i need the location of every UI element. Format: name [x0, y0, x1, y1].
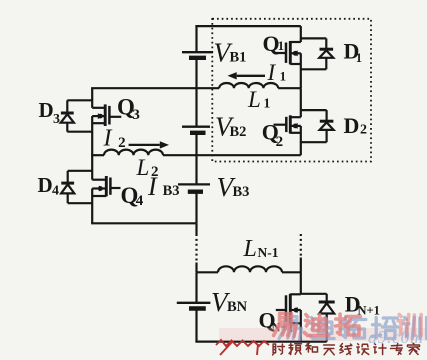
- wire (Q3 source vertical to SW2): [91, 116, 93, 155]
- diode D1: [319, 38, 333, 69]
- watermark (decorative): [219, 328, 427, 341]
- wire (right vertical dotted continuation): [300, 234, 302, 258]
- svg-text:3: 3: [53, 112, 60, 127]
- svg-text:2: 2: [360, 123, 367, 138]
- wire (node C: rail to L2): [163, 154, 197, 156]
- mosfet Q3: [92, 104, 121, 126]
- wire (VB3 to node D): [195, 192, 197, 224]
- mosfet Q1: [275, 41, 301, 64]
- wire (SW1 to Q2 drain): [300, 88, 302, 117]
- wire (node E: rail to L_N-1): [197, 271, 219, 273]
- wire (D2 top branch): [301, 109, 327, 111]
- current arrow I2: [129, 144, 160, 146]
- wire (VBN to bottom corner): [195, 309, 197, 342]
- wire (node E to VBN): [195, 272, 197, 303]
- battery VBN: [177, 303, 211, 309]
- svg-text:I: I: [267, 60, 277, 85]
- inductor L_N-1: [218, 266, 282, 272]
- wire (D3 top branch): [67, 99, 92, 101]
- annotation red scribble on bottom wire: [216, 340, 269, 346]
- mosfet Q_N+1: [276, 294, 301, 324]
- svg-text:B2: B2: [230, 124, 247, 140]
- svg-text:B3: B3: [163, 183, 180, 199]
- battery VB1: [182, 52, 213, 58]
- wire (QN+1 source vertical to bottom wire): [300, 310, 302, 342]
- wire (D_N+1 top branch): [301, 293, 327, 295]
- wire (D2 bottom branch): [301, 141, 327, 143]
- svg-text:D: D: [344, 113, 360, 138]
- wire (node B: Q3 to rail): [91, 87, 196, 89]
- svg-text:4: 4: [136, 193, 144, 209]
- svg-text:I: I: [147, 172, 158, 201]
- svg-text:BN: BN: [227, 299, 248, 315]
- svg-text:4: 4: [52, 183, 59, 198]
- svg-text:L: L: [243, 236, 257, 262]
- wire (VB1 to node B): [195, 58, 197, 88]
- wire (Q4 source vertical to node D): [91, 189, 93, 224]
- battery VB2: [182, 127, 210, 133]
- inductor L2: [104, 150, 163, 156]
- wire (Q3 drain vertical): [91, 88, 93, 108]
- svg-text:I: I: [103, 126, 113, 152]
- svg-text:L: L: [247, 87, 261, 112]
- svg-text:a9.c0m: a9.c0m: [368, 327, 424, 347]
- wire (rail top to VB1): [195, 25, 197, 52]
- wire (rail dotted continuation): [195, 234, 197, 263]
- wire (VB2 to node C): [195, 133, 197, 155]
- wire (L1 to switch node SW1): [278, 87, 301, 89]
- current arrow I1: [237, 75, 265, 77]
- svg-text:1: 1: [264, 96, 271, 111]
- wire (rail to node E): [195, 263, 197, 273]
- wire (node B to VB2): [195, 88, 197, 127]
- svg-text:1: 1: [278, 39, 284, 53]
- diode D2: [320, 110, 334, 142]
- wire (Q1 drain vertical): [300, 26, 302, 42]
- wire (node C to VB3): [195, 155, 197, 184]
- wire (Q2 source vertical to node C): [300, 126, 302, 155]
- svg-text:B1: B1: [230, 50, 247, 66]
- wire (D1 bottom branch): [301, 68, 327, 70]
- svg-text:N-1: N-1: [258, 245, 279, 260]
- wire (right vertical to QN+1 drain): [300, 258, 302, 295]
- wire (D1 top branch): [301, 37, 327, 39]
- wire (rail below node D): [195, 223, 197, 234]
- svg-text:1: 1: [280, 68, 287, 83]
- wire (D4 bottom branch): [68, 202, 93, 204]
- svg-text:B3: B3: [233, 184, 250, 200]
- wire (node D: Q4 source to rail): [91, 222, 196, 224]
- svg-text:D: D: [38, 173, 53, 197]
- svg-text:2: 2: [276, 134, 284, 150]
- mosfet Q4: [92, 176, 120, 196]
- wire (SW2 to L2): [91, 154, 104, 156]
- dotted enclosure box (equalizer cell): [212, 19, 371, 162]
- wire (top: rail to Q1 drain): [195, 25, 300, 27]
- svg-text:2: 2: [118, 135, 126, 151]
- wire (SW2 to Q4 drain): [91, 155, 93, 180]
- wire (node B: rail to L1): [197, 87, 220, 89]
- wire (D4 top branch): [68, 170, 93, 172]
- svg-text:D: D: [39, 98, 54, 122]
- wire (D3 bottom branch): [67, 131, 92, 133]
- mosfet Q2: [274, 115, 301, 133]
- wire (node C: Q2 source to rail): [197, 154, 301, 156]
- wire (L_N-1 to QN+1 vertical): [282, 271, 301, 273]
- diode D4: [61, 171, 74, 203]
- svg-text:3: 3: [132, 107, 140, 123]
- battery VB3: [178, 184, 210, 191]
- wire (Q1 source vertical to SW1): [300, 53, 302, 88]
- wire (bottom wire: rail to D_N+1): [195, 341, 326, 343]
- diode D3: [61, 100, 74, 131]
- diode D_N+1: [319, 294, 335, 342]
- inductor L1: [219, 83, 278, 88]
- svg-text:1: 1: [356, 51, 362, 65]
